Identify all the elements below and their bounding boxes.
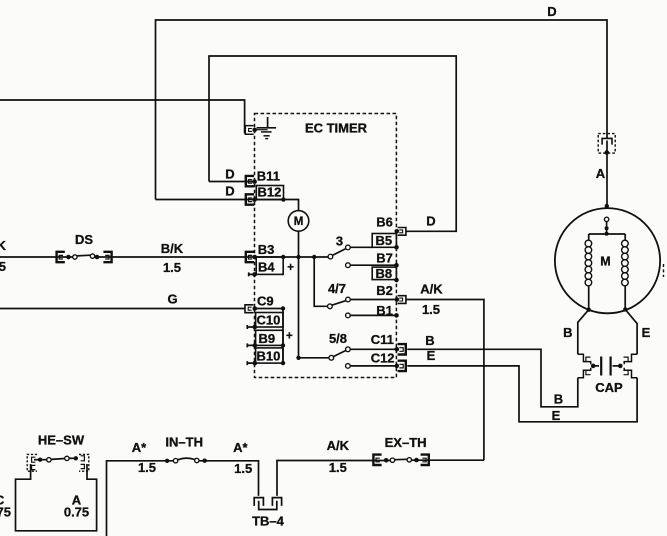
svg-text:1.5: 1.5 [163,260,181,275]
svg-text:B2: B2 [376,283,393,298]
svg-text:B/K: B/K [161,241,184,256]
svg-text:B12: B12 [258,185,282,200]
svg-text:B5: B5 [376,233,393,248]
svg-text:A/K: A/K [420,282,443,297]
svg-text:C9: C9 [257,294,274,309]
svg-text:A: A [596,166,606,181]
svg-text:0.75: 0.75 [0,505,11,520]
svg-text:B: B [425,333,434,348]
svg-text:HE–SW: HE–SW [38,433,85,448]
svg-text:EC TIMER: EC TIMER [305,121,368,136]
svg-text:CAP: CAP [595,380,623,395]
svg-text:B1: B1 [376,303,393,318]
svg-text:C10: C10 [257,313,281,328]
svg-text:B9: B9 [259,331,276,346]
svg-text:1.5: 1.5 [0,259,6,274]
svg-text:4/7: 4/7 [328,281,346,296]
svg-text:IN–TH: IN–TH [165,435,203,450]
svg-text:G: G [167,292,177,307]
svg-text:+: + [287,262,294,274]
svg-text:1.5: 1.5 [234,461,252,476]
svg-text:+: + [286,330,293,342]
svg-text:0.75: 0.75 [64,505,89,520]
svg-text:A/K: A/K [327,438,350,453]
svg-text:C11: C11 [371,332,394,347]
svg-text:M: M [294,216,304,228]
svg-text:E: E [642,325,651,340]
svg-text:1.5: 1.5 [138,460,156,475]
svg-text:A*: A* [132,440,147,455]
svg-text:TB–4: TB–4 [252,514,285,529]
svg-text:1.5: 1.5 [329,460,347,475]
svg-text:C12: C12 [371,350,395,365]
svg-text:M: M [600,254,610,268]
svg-text:B6: B6 [376,214,393,229]
svg-text:B11: B11 [257,168,280,183]
svg-text:1.5: 1.5 [422,302,440,317]
svg-text:B8: B8 [376,266,393,281]
svg-text:D: D [547,4,556,19]
svg-text:5/8: 5/8 [329,331,347,346]
svg-text:D: D [225,167,234,182]
svg-text:EX–TH: EX–TH [385,435,427,450]
svg-text:D: D [225,184,234,199]
svg-text:B7: B7 [376,250,393,265]
svg-text:B10: B10 [257,349,281,364]
svg-text:E: E [427,348,436,363]
svg-text:B4: B4 [258,259,275,274]
svg-text:3: 3 [336,234,343,249]
svg-text:B3: B3 [258,242,275,257]
svg-text:A*: A* [233,440,248,455]
svg-text:D: D [426,214,435,229]
svg-text:DS: DS [75,232,93,247]
svg-text:B/K: B/K [0,238,7,253]
svg-text:E: E [552,408,561,423]
svg-text:B: B [554,392,563,407]
svg-text:B: B [563,325,572,340]
